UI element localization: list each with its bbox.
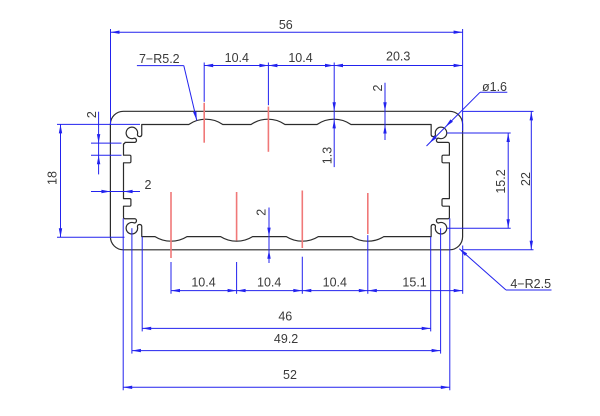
svg-text:2: 2	[255, 209, 269, 216]
svg-text:56: 56	[279, 18, 293, 32]
svg-text:10.4: 10.4	[257, 275, 281, 289]
svg-text:18: 18	[46, 171, 60, 185]
svg-text:49.2: 49.2	[274, 332, 298, 346]
svg-text:4−R2.5: 4−R2.5	[510, 277, 551, 291]
svg-text:2: 2	[145, 178, 152, 192]
svg-text:7−R5.2: 7−R5.2	[139, 52, 180, 66]
svg-text:10.4: 10.4	[191, 275, 215, 289]
svg-text:10.4: 10.4	[288, 51, 312, 65]
svg-text:10.4: 10.4	[323, 275, 347, 289]
svg-text:1.3: 1.3	[320, 147, 334, 164]
svg-text:52: 52	[283, 368, 297, 382]
svg-text:15.2: 15.2	[494, 169, 508, 193]
svg-text:15.1: 15.1	[402, 275, 426, 289]
svg-text:2: 2	[371, 84, 385, 91]
svg-text:10.4: 10.4	[225, 51, 249, 65]
svg-text:20.3: 20.3	[386, 50, 410, 64]
svg-text:2: 2	[85, 111, 99, 118]
svg-text:22: 22	[519, 172, 533, 186]
svg-text:46: 46	[278, 310, 292, 324]
